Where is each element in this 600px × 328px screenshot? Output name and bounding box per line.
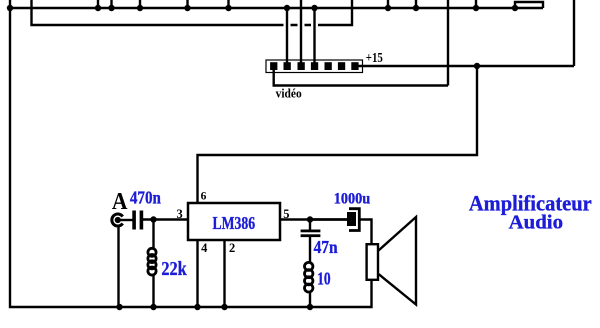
svg-text:10: 10: [317, 269, 331, 289]
svg-text:22k: 22k: [161, 258, 187, 280]
svg-text:6: 6: [201, 191, 207, 203]
svg-text:+15: +15: [366, 51, 383, 66]
svg-text:A: A: [112, 189, 128, 215]
svg-text:3: 3: [176, 207, 182, 221]
svg-text:47n: 47n: [314, 237, 338, 257]
svg-text:vidéo: vidéo: [276, 87, 302, 101]
svg-text:Audio: Audio: [509, 211, 563, 233]
svg-text:5: 5: [283, 207, 289, 221]
svg-text:LM386: LM386: [213, 213, 256, 233]
svg-text:4: 4: [201, 241, 208, 255]
svg-text:470n: 470n: [130, 188, 161, 208]
svg-text:2: 2: [229, 241, 235, 255]
svg-text:1000u: 1000u: [334, 191, 371, 208]
